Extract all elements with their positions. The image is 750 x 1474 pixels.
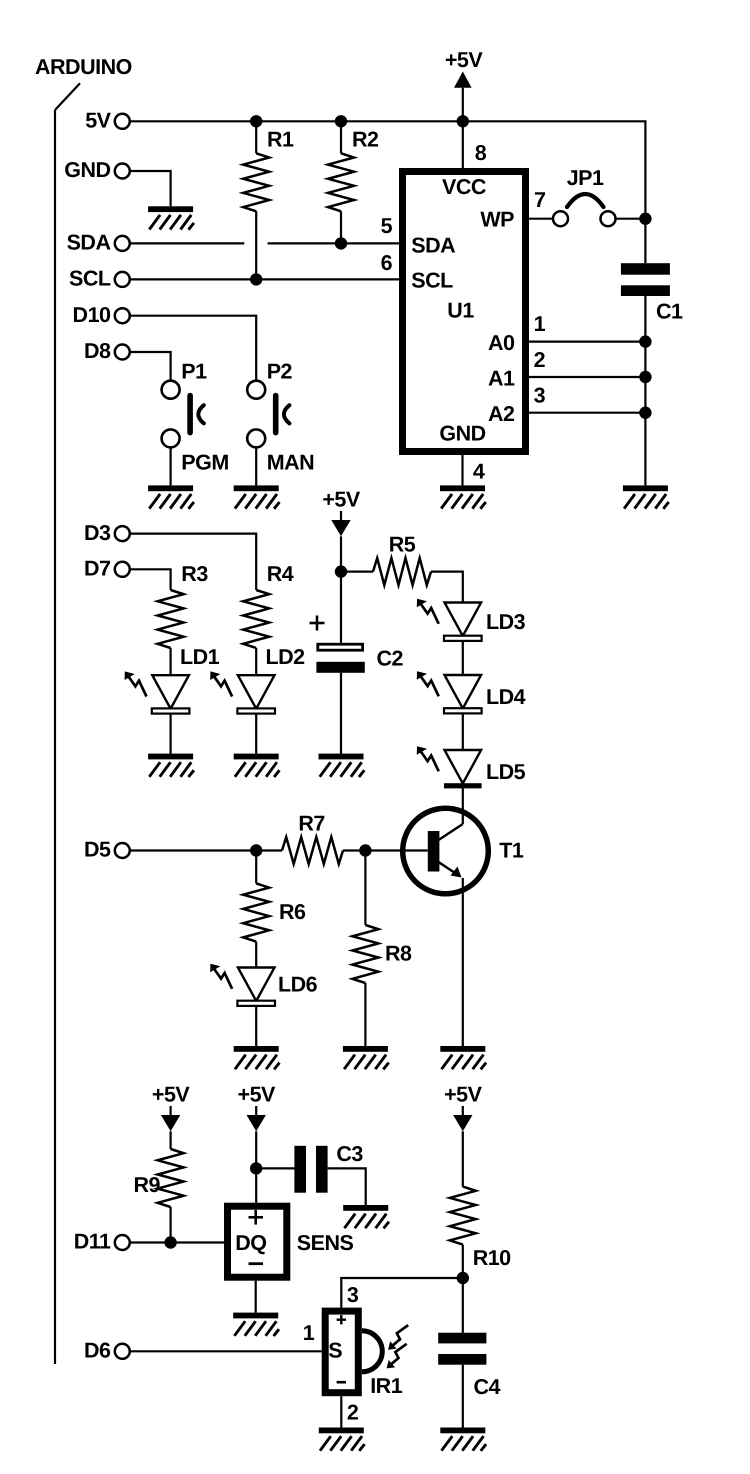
svg-text:7: 7: [534, 188, 546, 212]
junction A2-C1 rail: [639, 407, 651, 419]
svg-text:C4: C4: [474, 1375, 501, 1399]
svg-text:C2: C2: [377, 647, 404, 671]
LED LD2: [210, 645, 305, 714]
svg-text:LD2: LD2: [266, 645, 306, 669]
node +5V top supply: [445, 48, 484, 121]
wire IR1 pin3 to junction: [341, 1278, 463, 1308]
svg-text:LD4: LD4: [486, 685, 526, 709]
svg-text:ARDUINO: ARDUINO: [35, 55, 132, 79]
svg-text:D8: D8: [84, 339, 111, 363]
wire D10 to P2: [130, 316, 256, 381]
svg-text:LD5: LD5: [486, 760, 526, 784]
svg-text:+5V: +5V: [152, 1083, 191, 1107]
sensor IR1 body: [325, 1311, 408, 1393]
resistor R1: [243, 121, 294, 279]
pushbutton P2: [247, 360, 292, 448]
svg-text:5: 5: [381, 214, 393, 238]
pin number 4: [473, 460, 485, 484]
wire pin3 A2: [529, 412, 645, 414]
wire R5 to LD3: [431, 572, 463, 603]
wire R7 to T1 base: [343, 849, 402, 851]
LED LD4: [417, 671, 526, 713]
svg-text:WP: WP: [480, 208, 514, 232]
pin A1 label: [488, 366, 515, 390]
node SDA terminal: [67, 231, 130, 255]
svg-text:R8: R8: [385, 942, 412, 966]
pin A0 label: [488, 331, 515, 355]
svg-text:8: 8: [475, 141, 487, 165]
resistor R5: [341, 533, 431, 586]
svg-text:LD1: LD1: [180, 645, 220, 669]
node MAN label: [267, 451, 314, 475]
svg-text:R9: R9: [134, 1173, 161, 1197]
svg-text:GND: GND: [439, 421, 485, 445]
junction A1-C1 rail: [639, 371, 651, 383]
wire LD3 to LD4: [462, 641, 464, 675]
wire D6 to IR1: [130, 1350, 322, 1352]
pin number 6: [381, 251, 393, 275]
wire LD1 to ground: [170, 714, 172, 754]
svg-text:SENS: SENS: [297, 1231, 354, 1255]
wire P1 to ground: [170, 447, 172, 485]
wire LD2 to ground: [255, 714, 257, 754]
svg-text:S: S: [328, 1339, 342, 1363]
node PGM label: [181, 451, 228, 475]
svg-text:MAN: MAN: [267, 451, 314, 475]
pin A2 label: [488, 402, 515, 426]
svg-text:R5: R5: [389, 533, 416, 557]
wire C4 to ground: [462, 1365, 464, 1428]
node 5V terminal: [85, 109, 130, 133]
svg-text:2: 2: [534, 348, 546, 372]
svg-text:R6: R6: [279, 900, 306, 924]
LED LD1: [125, 645, 220, 714]
resistor R7: [282, 812, 343, 865]
svg-text:IR1: IR1: [370, 1374, 403, 1398]
svg-text:R1: R1: [267, 128, 294, 152]
op-amp U1 EEPROM body: [403, 172, 526, 452]
node D3 terminal: [84, 521, 130, 545]
pin number 1: [534, 312, 546, 336]
wire D3 to R4: [130, 534, 256, 590]
svg-text:C1: C1: [656, 300, 683, 324]
node +5V supply for LEDs: [322, 488, 361, 537]
node D5 terminal: [84, 838, 130, 862]
resistor R9: [134, 1149, 184, 1243]
jumper JP1: [553, 166, 616, 226]
svg-text:JP1: JP1: [567, 166, 604, 190]
svg-text:D11: D11: [74, 1230, 111, 1254]
svg-text:A2: A2: [488, 402, 515, 426]
node D7 terminal: [84, 557, 130, 581]
resistor R6: [243, 851, 306, 968]
wire pin4 GND: [461, 455, 463, 485]
junction R9-D11: [164, 1236, 176, 1248]
pin number 8: [475, 141, 487, 165]
pin GND label: [439, 421, 485, 445]
LED LD3: [417, 599, 526, 641]
ground C1: [623, 485, 669, 508]
ground P1: [148, 485, 194, 508]
resistor R10: [450, 1187, 511, 1278]
svg-text:A0: A0: [488, 331, 515, 355]
node +5V supply SENS: [238, 1083, 277, 1132]
ground C2: [319, 754, 365, 777]
junction R2-SDA: [335, 237, 347, 249]
node ARDUINO header label: [35, 55, 132, 79]
wire DQ to ground: [255, 1281, 257, 1313]
wire D5 to R7: [130, 849, 282, 851]
wire C3 to ground: [328, 1168, 366, 1205]
svg-text:LD3: LD3: [486, 610, 526, 634]
wire ARDUINO bracket diagonal: [55, 83, 80, 110]
wire LD4 to LD5: [462, 713, 464, 750]
junction R10-IR1-C4: [457, 1272, 469, 1284]
pin WP label: [480, 208, 514, 232]
svg-text:1: 1: [534, 312, 546, 336]
svg-text:LD6: LD6: [278, 973, 318, 997]
junction R1-5V: [250, 115, 262, 127]
wire pin2 A1: [529, 376, 645, 378]
wire D7 to R3: [130, 569, 171, 590]
wire 5V rail: [130, 121, 646, 212]
junction R1-SCL: [250, 273, 262, 285]
svg-text:SCL: SCL: [411, 269, 453, 293]
node D6 terminal: [84, 1339, 130, 1363]
resistor R3: [158, 562, 209, 675]
ground U1 pin4: [440, 485, 486, 508]
ground C4: [440, 1428, 486, 1451]
svg-text:T1: T1: [499, 839, 524, 863]
wire T1 emitter to ground: [462, 895, 464, 1046]
svg-text:SDA: SDA: [67, 231, 111, 255]
svg-text:R7: R7: [298, 812, 325, 836]
svg-text:R4: R4: [267, 562, 294, 586]
ground T1 emitter: [440, 1046, 486, 1069]
pin number 2 IR1: [347, 1401, 359, 1425]
junction VCC-5V: [457, 115, 469, 127]
svg-text:SCL: SCL: [69, 267, 111, 291]
pin number 7: [534, 188, 546, 212]
transistor T1: [402, 808, 524, 895]
svg-text:DQ: DQ: [235, 1231, 266, 1255]
capacitor C1: [621, 263, 683, 323]
svg-text:D5: D5: [84, 838, 111, 862]
node +5V supply R10: [444, 1083, 483, 1132]
pin number 5: [381, 214, 393, 238]
wire ARDUINO bracket vertical: [54, 110, 56, 1364]
node D10 terminal: [73, 303, 130, 327]
sensor SENS DQ body: [228, 1206, 287, 1277]
wire +5V to R9: [170, 1131, 172, 1149]
node +5V supply R9: [152, 1083, 191, 1132]
ground LD2: [234, 754, 280, 777]
resistor R2: [328, 121, 379, 243]
svg-text:VCC: VCC: [442, 175, 486, 199]
ground DQ: [233, 1313, 279, 1336]
pin number 2: [534, 348, 546, 372]
wire D8 to P1: [130, 352, 171, 381]
junction R7-R8: [359, 844, 371, 856]
wire rail to C1: [644, 219, 646, 264]
svg-text:P2: P2: [267, 360, 293, 384]
wire GND terminal to ground: [130, 171, 171, 206]
svg-text:PGM: PGM: [181, 451, 228, 475]
node SCL terminal: [69, 267, 130, 291]
wire C1 to ground: [644, 296, 646, 485]
svg-text:5V: 5V: [85, 109, 111, 133]
junction JP1-C1 rail: [639, 213, 651, 225]
node SENS label: [297, 1231, 354, 1255]
svg-text:P1: P1: [181, 360, 207, 384]
svg-text:U1: U1: [447, 298, 474, 322]
pushbutton P1: [162, 360, 208, 448]
pin number 3 IR1: [347, 1283, 359, 1307]
svg-text:R10: R10: [473, 1246, 511, 1270]
capacitor C2 electrolytic: [310, 616, 404, 673]
ground C3: [343, 1205, 389, 1228]
ground IR1: [319, 1428, 365, 1451]
wire P2 to ground: [255, 447, 257, 485]
node D8 terminal: [84, 339, 130, 363]
junction DQ-C3: [250, 1162, 262, 1174]
junction C2-R5: [335, 565, 347, 577]
svg-text:+5V: +5V: [444, 1083, 483, 1107]
svg-text:3: 3: [347, 1283, 359, 1307]
svg-text:D10: D10: [73, 303, 111, 327]
ground R8: [343, 1046, 389, 1069]
capacitor C3: [294, 1142, 363, 1193]
wire pin8 VCC: [462, 121, 464, 168]
wire LD6 to ground: [255, 1006, 257, 1046]
ground LD1: [148, 754, 194, 777]
wire +5V to R10: [462, 1131, 464, 1186]
wire C2 to ground: [340, 673, 342, 754]
LED LD5: [417, 746, 526, 788]
pin SCL label: [411, 269, 453, 293]
pin number 1 IR1: [303, 1321, 315, 1345]
wire pin1 A0: [529, 341, 645, 343]
node GND terminal: [64, 158, 130, 182]
ground GND terminal: [148, 206, 194, 229]
ground LD6: [234, 1046, 280, 1069]
wire IR1 pin2 to ground: [340, 1396, 342, 1427]
svg-text:D3: D3: [84, 521, 111, 545]
capacitor C4: [438, 1333, 500, 1399]
pin number 3: [534, 384, 546, 408]
svg-text:+5V: +5V: [445, 48, 484, 72]
pin VCC label: [442, 175, 486, 199]
junction A0-C1 rail: [639, 335, 651, 347]
wire D11 to DQ: [130, 1241, 224, 1243]
svg-text:C3: C3: [336, 1142, 363, 1166]
svg-text:+5V: +5V: [238, 1083, 277, 1107]
ground P2: [234, 485, 280, 508]
svg-text:GND: GND: [64, 158, 110, 182]
junction D5-R6: [250, 844, 262, 856]
wire junction to C3: [256, 1167, 294, 1169]
svg-text:R2: R2: [352, 128, 379, 152]
svg-text:+5V: +5V: [322, 488, 361, 512]
wire +5V to C2 junction: [340, 536, 342, 571]
svg-text:D6: D6: [84, 1339, 111, 1363]
svg-text:R3: R3: [181, 562, 208, 586]
svg-text:D7: D7: [84, 557, 111, 581]
resistor R4: [243, 562, 294, 675]
wire SDA: [130, 242, 400, 244]
pin SDA label: [411, 234, 455, 258]
svg-text:A1: A1: [488, 366, 515, 390]
svg-text:3: 3: [534, 384, 546, 408]
svg-text:6: 6: [381, 251, 393, 275]
wire SCL: [130, 278, 400, 280]
node D11 terminal: [74, 1230, 130, 1254]
svg-text:4: 4: [473, 460, 485, 484]
wire +5V to DQ: [255, 1131, 257, 1202]
svg-text:2: 2: [347, 1401, 359, 1425]
svg-text:SDA: SDA: [411, 234, 455, 258]
resistor R8: [352, 851, 412, 1047]
wire pin7 WP to JP1: [529, 218, 553, 220]
wire junction to C4: [462, 1278, 464, 1333]
LED LD6: [210, 964, 317, 1006]
node IR1 label: [370, 1374, 403, 1398]
svg-text:1: 1: [303, 1321, 315, 1345]
wire junction to C2: [340, 572, 342, 643]
wire LD5 to T1 collector: [462, 788, 464, 807]
wire JP1 to rail: [616, 218, 646, 220]
junction R2-5V: [335, 115, 347, 127]
